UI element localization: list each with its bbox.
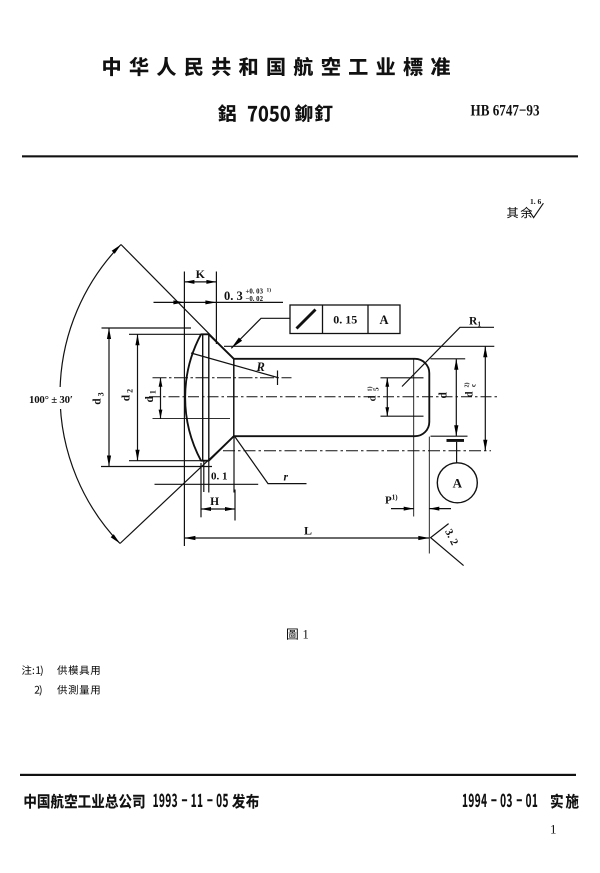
geometric tolerance frame bbox=[290, 305, 400, 334]
angle extension line upper bbox=[121, 245, 234, 359]
svg-text:1: 1 bbox=[550, 822, 557, 837]
svg-text:1: 1 bbox=[149, 390, 158, 394]
P right dimension segment bbox=[429, 508, 451, 510]
angle label 100 deg pm 30min bbox=[27, 387, 85, 409]
0.1 left extension (head vertical continued) bbox=[208, 461, 210, 493]
svg-text:1: 1 bbox=[303, 628, 309, 642]
d1 top extension line bbox=[153, 377, 292, 379]
svg-text:d: d bbox=[92, 398, 104, 405]
head inner vertical line bbox=[208, 334, 210, 460]
datum target bar bbox=[447, 439, 465, 442]
H dimension line bbox=[201, 508, 235, 510]
d5 label bbox=[367, 387, 381, 402]
dc label bbox=[464, 383, 478, 398]
svg-text:HB 6747−93: HB 6747−93 bbox=[471, 100, 540, 119]
subtitle: 铝7050铆钉 bbox=[218, 104, 332, 122]
svg-text:R: R bbox=[256, 360, 265, 374]
main centerline bbox=[149, 396, 500, 398]
rivet head bottom flat edge bbox=[201, 460, 209, 462]
d3 label bbox=[92, 392, 106, 404]
general roughness note 其余 1.6 bbox=[507, 197, 543, 218]
svg-text:1. 6: 1. 6 bbox=[530, 197, 542, 206]
gauge plane vertical bbox=[413, 359, 415, 517]
svg-text:d: d bbox=[465, 391, 476, 397]
svg-text:1): 1) bbox=[267, 287, 272, 294]
0.3 dimension line bbox=[154, 301, 284, 303]
svg-text:3: 3 bbox=[96, 392, 105, 396]
d2 label bbox=[121, 389, 135, 401]
d dimension line bbox=[455, 359, 457, 436]
d1 dimension line bbox=[160, 378, 162, 419]
svg-text:0. 15: 0. 15 bbox=[333, 313, 357, 327]
svg-text:d: d bbox=[438, 392, 450, 399]
L dimension line bbox=[184, 537, 429, 539]
P right extension line bbox=[428, 437, 430, 554]
0.1 second short vertical bbox=[203, 461, 205, 492]
footer implementation date bbox=[463, 794, 579, 809]
d3 dimension line bbox=[108, 328, 110, 467]
d3 bottom extension line bbox=[101, 466, 212, 468]
svg-text:r: r bbox=[284, 472, 289, 484]
svg-text:L: L bbox=[304, 524, 312, 538]
rivet head top flat edge bbox=[201, 333, 209, 335]
d5 dimension line bbox=[386, 378, 388, 416]
svg-text:+0. 03: +0. 03 bbox=[246, 289, 264, 296]
svg-text:A: A bbox=[453, 475, 463, 490]
svg-text:K: K bbox=[196, 267, 206, 281]
note 1 bbox=[22, 665, 100, 676]
title line: 中华人民共和国航空工业标准 bbox=[103, 57, 450, 77]
r fillet leader bbox=[235, 437, 307, 484]
shank outline with rounded end bbox=[234, 359, 429, 436]
angle arc lower arrowhead bbox=[111, 534, 120, 543]
d1 bottom extension line bbox=[153, 418, 231, 420]
svg-text:−0. 02: −0. 02 bbox=[246, 296, 264, 303]
footer rule bbox=[20, 774, 576, 776]
d bottom extension line bbox=[431, 435, 468, 437]
note 2 bbox=[35, 685, 100, 696]
datum circle bbox=[437, 463, 477, 503]
d2 top extension line bbox=[129, 333, 201, 335]
svg-text:d: d bbox=[121, 394, 133, 401]
figure caption 图1 bbox=[287, 628, 309, 642]
dc bottom extension line bbox=[223, 450, 491, 452]
P left dimension segment bbox=[391, 508, 414, 510]
0.1 baseline bbox=[155, 483, 259, 485]
rivet head crown arc bbox=[185, 334, 201, 460]
d3 top extension line bbox=[102, 327, 192, 329]
head-shank junction vertical bbox=[233, 359, 235, 436]
R1 leader bbox=[402, 327, 494, 386]
head tangent vertical line bbox=[202, 334, 204, 460]
junction vertical extension below bbox=[233, 436, 235, 492]
angle arc upper arrowhead bbox=[112, 245, 121, 254]
footer issuer and issue date bbox=[25, 794, 259, 809]
svg-text:0. 1: 0. 1 bbox=[211, 471, 228, 483]
svg-text:A: A bbox=[379, 313, 388, 327]
head apex extension line (K/L datum) bbox=[183, 272, 185, 547]
angle dimension arc bbox=[60, 245, 121, 544]
K dimension line bbox=[184, 281, 216, 283]
R leader line bbox=[191, 353, 278, 378]
d label bbox=[438, 392, 450, 399]
angle extension line lower bbox=[120, 436, 234, 543]
d5 bottom extension line bbox=[381, 415, 424, 417]
d2 bottom extension line bbox=[129, 460, 201, 462]
svg-text:H: H bbox=[210, 496, 219, 508]
0.3 value with tolerances bbox=[224, 287, 271, 304]
datum leader line bbox=[456, 442, 458, 463]
3.2 roughness symbol bbox=[431, 524, 464, 566]
svg-text:d: d bbox=[368, 395, 379, 401]
head cone lower surface bbox=[209, 436, 234, 461]
svg-text:d: d bbox=[144, 396, 156, 403]
d1 label bbox=[144, 390, 158, 402]
d top extension line bbox=[431, 358, 466, 360]
dc top extension line bbox=[224, 345, 494, 347]
header rule bbox=[22, 155, 578, 157]
3.2 value bbox=[442, 527, 460, 548]
svg-text:2: 2 bbox=[125, 389, 134, 393]
svg-text:0. 3: 0. 3 bbox=[224, 289, 243, 303]
svg-text:1): 1) bbox=[367, 387, 374, 392]
d2 dimension line bbox=[137, 334, 139, 460]
K dimension right extension line bbox=[215, 272, 217, 345]
H right extension line bbox=[234, 490, 236, 521]
dc dimension line bbox=[484, 346, 486, 451]
svg-text:2): 2) bbox=[464, 383, 471, 388]
tolerance frame leader bbox=[231, 318, 290, 348]
svg-text:100° ± 30′: 100° ± 30′ bbox=[29, 394, 73, 406]
d5 top extension line bbox=[381, 377, 424, 379]
H left extension line bbox=[200, 463, 202, 517]
head cone upper surface bbox=[209, 334, 234, 359]
R center cross tick bbox=[277, 371, 279, 386]
